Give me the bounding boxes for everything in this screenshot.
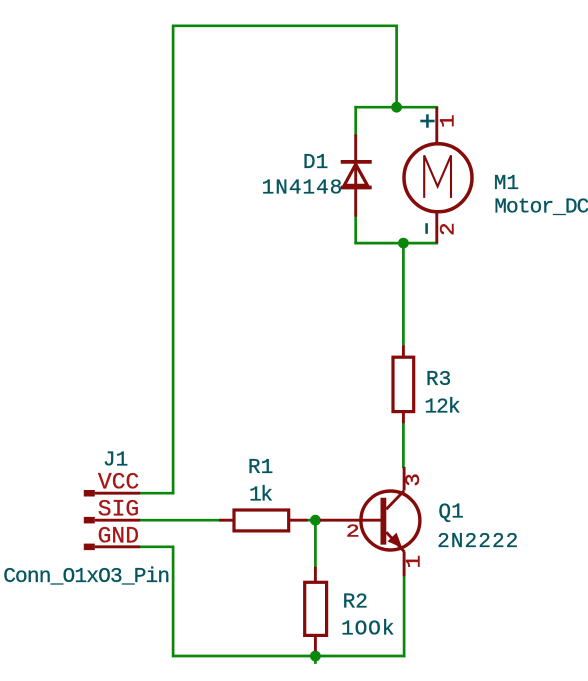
svg-text:2: 2: [437, 222, 460, 236]
svg-text:Q1: Q1: [438, 500, 463, 524]
svg-text:2: 2: [346, 523, 360, 543]
svg-text:M1: M1: [494, 172, 519, 196]
svg-text:3: 3: [403, 473, 426, 487]
svg-text:1: 1: [403, 555, 426, 569]
svg-text:Conn_O1xO3_Pin: Conn_O1xO3_Pin: [3, 565, 169, 589]
svg-text:VCC: VCC: [98, 469, 139, 495]
svg-text:1OOk: 1OOk: [341, 617, 395, 641]
svg-text:R1: R1: [248, 456, 273, 480]
svg-text:Motor_DC: Motor_DC: [494, 195, 588, 219]
svg-text:GND: GND: [98, 524, 139, 550]
svg-text:R3: R3: [426, 368, 451, 392]
svg-text:1: 1: [437, 114, 460, 128]
svg-text:1k: 1k: [249, 483, 272, 507]
svg-text:1N4148: 1N4148: [262, 177, 344, 201]
svg-text:SIG: SIG: [98, 497, 139, 523]
svg-text:D1: D1: [303, 151, 328, 175]
svg-text:R2: R2: [343, 591, 368, 615]
svg-text:12k: 12k: [424, 395, 459, 419]
svg-text:2N2222: 2N2222: [437, 530, 519, 554]
